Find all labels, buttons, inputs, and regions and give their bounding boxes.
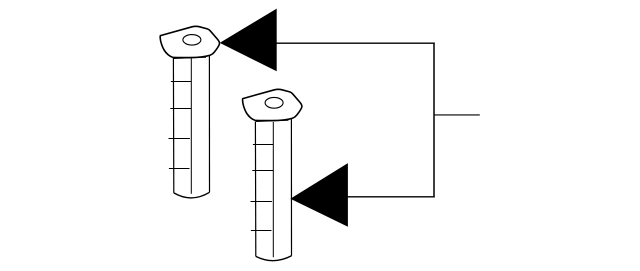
bolt B2 bottom arc xyxy=(256,256,292,261)
bolt B1 thread tick 2 xyxy=(170,108,191,110)
leader line right vertical xyxy=(433,43,435,198)
bolt B1 shaft inner edge xyxy=(190,59,192,194)
callout arrowhead A2 xyxy=(291,164,347,226)
bolt B2 head xyxy=(243,89,302,120)
bolt B1 shaft left edge xyxy=(172,58,174,193)
bolt B1 thread tick 1 xyxy=(171,81,192,83)
bolt B2 shaft left edge xyxy=(254,122,256,257)
bolt B2 thread tick 4 xyxy=(251,230,272,232)
leader line top horizontal xyxy=(276,42,435,44)
bolt B1 head xyxy=(160,26,219,57)
bolt B1 head hole xyxy=(183,35,201,46)
bolt B1 shaft right edge xyxy=(208,56,210,193)
bolt B2 thread tick 2 xyxy=(252,170,273,172)
bolt B1 thread tick 3 xyxy=(169,138,190,140)
bolt B1 flange base line xyxy=(173,57,206,58)
leader line bottom horizontal xyxy=(347,196,435,198)
bolt B2 flange base line xyxy=(256,120,289,121)
bolt B2 shaft inner edge xyxy=(272,122,274,257)
bolt B1 thread tick 4 xyxy=(169,168,190,170)
callout arrowhead A1 xyxy=(221,10,276,71)
leader stub to part number xyxy=(434,114,480,116)
bolt B1 bottom arc xyxy=(174,192,210,198)
bolt B2 head hole xyxy=(265,97,283,108)
bolt B2 thread tick 3 xyxy=(251,201,272,203)
bolt B2 thread tick 1 xyxy=(253,144,274,146)
bolt B2 shaft right edge xyxy=(290,119,292,256)
